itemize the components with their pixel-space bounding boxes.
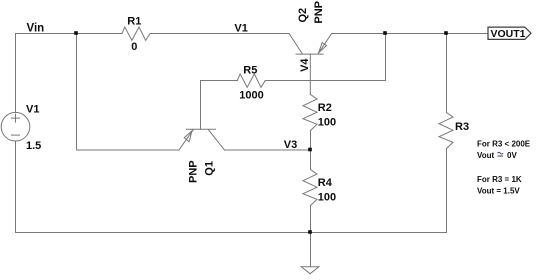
svg-text:100: 100 (318, 117, 336, 129)
ground (301, 233, 319, 274)
wire: R5 right lead (265, 80, 385, 82)
svg-text:VOUT1: VOUT1 (491, 28, 526, 40)
svg-text:Q2: Q2 (297, 8, 309, 23)
svg-text:1000: 1000 (239, 90, 263, 102)
svg-text:V4: V4 (299, 58, 311, 72)
svg-text:V1: V1 (234, 22, 247, 34)
svg-text:Vout: Vout (477, 151, 495, 160)
resistor R4 (303, 170, 317, 206)
svg-text:Vout = 1.5V: Vout = 1.5V (477, 187, 520, 196)
svg-text:R3: R3 (455, 121, 469, 133)
svg-text:R5: R5 (243, 64, 257, 76)
wire: R4 bottom to ground rail (310, 206, 312, 233)
wire: Q1 collector to V3 node (225, 149, 311, 151)
wire: Q2 base down to R2 (309, 54, 311, 94)
svg-text:For R3 = 1K: For R3 = 1K (477, 175, 522, 184)
annotation line 2 (477, 151, 517, 160)
wire: VOUT node down to R3 (446, 34, 448, 113)
wire: junction below Vin down and across to Q1 emitter (77, 34, 179, 151)
wire: left rail upper (15, 34, 17, 113)
transistor Q1 (179, 129, 225, 150)
svg-text:PNP: PNP (188, 160, 200, 183)
svg-text:100: 100 (318, 191, 336, 203)
node V3: junction dot (308, 148, 312, 152)
svg-text:R2: R2 (318, 102, 332, 114)
svg-text:0: 0 (131, 41, 137, 53)
wire: R1 to Q2 collector (150, 33, 289, 35)
node: junction dot VOUT/R3 (444, 31, 448, 35)
svg-text:R4: R4 (318, 177, 333, 189)
node: junction dot ground tap (308, 230, 312, 234)
wire: R5 left lead and drop to Q1 base (201, 81, 238, 129)
wire: top rail Vin to R1 (16, 33, 123, 35)
svg-text:V3: V3 (284, 139, 297, 151)
node: junction dot feedback tap (383, 31, 387, 35)
wire: R2 bottom to V3 node (310, 131, 312, 151)
node A: junction dot Vin/R1 (74, 31, 78, 35)
transistor Q2 (289, 34, 331, 55)
svg-text:PNP: PNP (313, 1, 325, 24)
wire: V3 node to R4 (310, 150, 312, 170)
resistor R5 (237, 74, 265, 87)
resistor R3 (439, 113, 453, 149)
resistor R1 (122, 27, 150, 40)
svg-text:V1: V1 (26, 104, 39, 116)
wire: Q2 emitter to VOUT1 flag (332, 33, 489, 35)
wire: bottom rail (16, 232, 447, 234)
wire: feedback drop from node at x385 (385, 34, 387, 81)
svg-text:1.5: 1.5 (26, 140, 41, 152)
svg-text:Q1: Q1 (204, 161, 216, 176)
wire: R3 bottom to ground rail (446, 149, 448, 233)
wire: left rail lower (15, 141, 17, 233)
voltage source V1 (1, 112, 30, 141)
flag VOUT1 (488, 27, 531, 40)
resistor R2 (303, 95, 317, 131)
svg-text:Vin: Vin (27, 22, 45, 34)
svg-text:For R3 < 200E: For R3 < 200E (477, 140, 531, 149)
svg-text:0V: 0V (507, 151, 517, 160)
svg-text:R1: R1 (127, 16, 141, 28)
